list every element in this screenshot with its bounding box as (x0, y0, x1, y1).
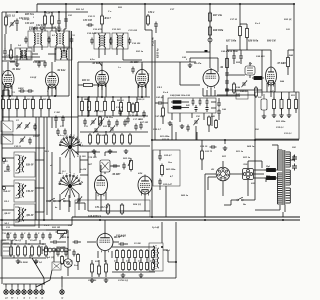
svg-text:C68 4,7: C68 4,7 (164, 154, 172, 157)
ground rr3 (287, 113, 292, 118)
junction bl1 (14, 243, 16, 245)
wire pin8 lead (61, 276, 63, 287)
capacitor C9 (28, 138, 32, 145)
resistor bankB1 (116, 261, 119, 271)
capacitor Cm55 (56, 250, 60, 257)
resistor Rt2 (17, 245, 20, 257)
wire Rr4 (295, 92, 297, 113)
connector pin4 (22, 287, 26, 294)
resistor R50d (215, 119, 218, 129)
svg-text:С 300: С 300 (54, 111, 61, 114)
svg-text:R25 51к: R25 51к (25, 13, 35, 16)
wire terminal drop (209, 42, 211, 68)
capacitor C34 (131, 67, 135, 74)
wire Rc2 (128, 97, 130, 116)
junction d11 (1, 219, 3, 221)
tube V7 6J8 (266, 66, 277, 87)
wire coil left leads (2, 158, 14, 210)
component padder fill (3, 123, 11, 130)
wire left bus y225 (0, 224, 72, 226)
wire w-contacts (46, 201, 70, 207)
svg-text:С27 220: С27 220 (52, 26, 61, 29)
resistor bankA5 (140, 249, 143, 259)
wire bus y97 c (78, 96, 150, 98)
resistor Rt6 (45, 245, 48, 257)
tube V6 6G7 (203, 68, 219, 88)
capacitor Cb7 (139, 123, 143, 130)
junction busA x240 (239, 3, 241, 5)
svg-text:С32 51: С32 51 (88, 15, 95, 18)
wire Rr3 (288, 92, 290, 113)
wire Rb3 (96, 97, 98, 116)
junction 225-140 (224, 139, 226, 141)
resistor Rx5 (99, 116, 102, 127)
wire bus y146 c (80, 145, 150, 147)
resistor Rb1 (81, 100, 84, 113)
wire bus y96 (2, 95, 69, 97)
wire det inner (183, 102, 216, 108)
svg-text:R35 1к: R35 1к (136, 50, 144, 53)
wire vertical x155 (154, 40, 156, 140)
inductor chain L (44, 248, 68, 252)
component padder box2 (1, 134, 13, 144)
svg-text:Л6: Л6 (219, 66, 224, 69)
wire bank top (112, 246, 155, 248)
resistor Rb4 (104, 100, 107, 113)
wire vertical x78 (77, 62, 79, 148)
wire IFT3 down (99, 49, 123, 60)
junction cj5 (105, 131, 107, 133)
connector pin3 (16, 287, 20, 294)
wire left edge vertical (1, 12, 3, 284)
wire C22 down (16, 25, 18, 31)
junction bl2 (28, 243, 30, 245)
svg-text:С25 470: С25 470 (29, 26, 38, 29)
transformer L3 box (15, 48, 32, 60)
wire y244 bl (2, 243, 46, 245)
connector pin1 (4, 287, 8, 294)
resistor R46d (171, 106, 183, 109)
svg-text:R39 1Д: R39 1Д (284, 18, 292, 21)
resistor Rr4 (295, 98, 298, 111)
fuse Пр1 (265, 168, 278, 171)
capacitor C31 (43, 61, 47, 68)
junction 255-140 (254, 139, 256, 141)
wire y258 bl (2, 257, 46, 259)
svg-text:C31: C31 (6, 226, 10, 229)
resistor Rc1 (120, 101, 123, 114)
resistor Rb5 (112, 100, 115, 113)
transformer IFT2 (50, 31, 70, 47)
svg-text:СВ-I: СВ-I (4, 201, 9, 203)
svg-text:КВ II 4а: КВ II 4а (157, 48, 160, 59)
component box bass lines (3, 242, 9, 244)
wire bus y140 (152, 139, 299, 141)
component box C51-K12 (75, 200, 150, 217)
ground gc2 (108, 149, 113, 154)
wire plug-trans (254, 170, 268, 182)
ground V11b (104, 278, 109, 283)
svg-text:С а 1: С а 1 (44, 225, 49, 227)
resistor bankA1 (116, 249, 119, 259)
svg-text:R17 2М: R17 2М (140, 121, 149, 124)
ground C43 (188, 63, 193, 68)
wire bus y132 c (80, 131, 148, 133)
wire V8 top (105, 152, 117, 174)
ground gc1 (92, 149, 97, 154)
capacitor C46d (186, 125, 190, 132)
svg-text:С31 4Д: С31 4Д (2, 232, 10, 235)
resistor pot volume (56, 231, 69, 234)
capacitor Cout (119, 242, 126, 246)
wire mid drops (179, 62, 181, 85)
wire det drops (172, 113, 212, 126)
resistor Rrow1-5 (32, 98, 35, 111)
svg-text:П2-1: П2-1 (43, 150, 49, 153)
trimmer Cb3 (98, 119, 104, 126)
svg-text:Пр2: Пр2 (265, 175, 271, 178)
wire vertical x152 (151, 30, 153, 217)
junction bank5 (140, 259, 141, 260)
coil box СВ (14, 180, 35, 202)
wire V4 top link (123, 60, 142, 70)
junction y96 a (9, 95, 11, 97)
resistor Rc3 (136, 101, 139, 114)
svg-text:R а 2: R а 2 (255, 23, 261, 25)
svg-text:С46Д R48 100в С42: С46Д R48 100в С42 (170, 94, 191, 97)
wire y148 l (2, 147, 45, 149)
wire R46r leads (288, 50, 294, 75)
wire bus join (71, 217, 73, 225)
ground c140 (223, 146, 228, 151)
capacitor C30 (37, 61, 41, 68)
capacitor C34 side (90, 38, 94, 45)
capacitor Cv (52, 240, 59, 244)
resistor Rt1 (10, 245, 13, 257)
junction cj3 (128, 96, 130, 98)
component padder box1 (1, 121, 13, 132)
wire top bus A (37, 3, 294, 5)
wire R26 l (44, 12, 46, 31)
svg-text:1: 1 (33, 17, 34, 19)
wire IFT34 link (110, 38, 112, 44)
tube V9 output pentode (95, 174, 108, 196)
svg-text:СВ-IV: СВ-IV (26, 190, 35, 193)
svg-text:R а 4: R а 4 (163, 91, 169, 94)
trimmer C50d (193, 119, 199, 126)
capacitor Ct5 (34, 233, 38, 240)
capacitor Cb6 (123, 120, 127, 127)
capacitor Ct1 (6, 233, 10, 240)
resistor R34 (101, 14, 104, 26)
svg-text:C33 100: C33 100 (83, 19, 93, 22)
wire x78 to wafer (72, 142, 79, 155)
wire R38 up (240, 24, 247, 29)
resistor Rrow1-4 (24, 98, 27, 111)
resistor R47 (209, 11, 212, 23)
resistor R37 (239, 25, 242, 38)
wire x240 drop (239, 4, 241, 25)
wire y95 rr (217, 94, 255, 96)
svg-text:R68 1к: R68 1к (247, 145, 255, 148)
wire R21 bottom (5, 12, 7, 34)
svg-text:С2 300: С2 300 (134, 243, 142, 245)
resistor bankA6 (146, 249, 149, 259)
junction cj1 (88, 96, 90, 98)
capacitor C25 side (24, 37, 28, 44)
svg-text:КВ-IV: КВ-IV (3, 171, 11, 173)
wire Rrow1-6 (40, 96, 42, 117)
svg-text:С48Д: С48Д (18, 87, 24, 90)
wire V2 pins (48, 62, 56, 96)
wire V2-IFT link (54, 48, 56, 62)
ground V11a (90, 278, 95, 283)
transformer L5 box (56, 48, 72, 60)
capacitor C15x (112, 164, 119, 168)
capacitor Cm2 (292, 164, 297, 171)
capacitor Ct4 (27, 233, 31, 240)
switch SA1 (237, 197, 243, 201)
capacitor C48d2 (217, 109, 221, 116)
transformer IFT4 (112, 33, 128, 49)
resistor Rt4 (31, 245, 34, 257)
wire trans bottom (255, 205, 280, 210)
wire x36 drop (35, 117, 37, 220)
svg-text:C51-К12 4Д: C51-К12 4Д (95, 206, 108, 209)
capacitor Cx3 (56, 129, 60, 136)
svg-text:б1: б1 (11, 297, 14, 300)
ground d2 (180, 124, 185, 129)
wire x240 bottom (240, 36, 247, 51)
svg-text:R22 1М: R22 1М (52, 226, 61, 229)
trimmer Cb2 (90, 119, 96, 126)
wire vertical x69 (68, 31, 70, 96)
svg-text:С55 4000: С55 4000 (56, 246, 66, 249)
capacitor C45d (157, 101, 164, 105)
terminal grid cap (208, 38, 212, 42)
coil box ДВ (14, 204, 35, 226)
wire socket wires2 (248, 161, 264, 196)
capacitor Cc3 (225, 87, 229, 94)
tube V3 6K4 IF (96, 69, 109, 87)
resistor R47d (162, 107, 165, 118)
coil box КВ (14, 152, 35, 177)
wire conn drops (6, 284, 42, 287)
wire bus A start drop (36, 4, 38, 12)
svg-text:R48 300к: R48 300к (213, 29, 224, 32)
wire c4x col (218, 98, 220, 120)
svg-text:Л7 6Ж8: Л7 6Ж8 (276, 62, 286, 65)
wire R28 l (10, 44, 12, 50)
junction d12 (293, 3, 295, 5)
ground gc3 (124, 149, 129, 154)
wire Rr1 (273, 92, 275, 113)
wire x52 drop (51, 152, 53, 220)
wire c links (88, 152, 150, 211)
capacitor Cant (6, 165, 10, 172)
svg-text:C10 51: C10 51 (14, 145, 21, 148)
wire C29 l (4, 34, 6, 60)
resistor R45d (171, 101, 183, 104)
trimmer pot S2 (76, 197, 82, 204)
capacitor C29 (3, 49, 7, 56)
capacitor C68f (158, 154, 162, 161)
wire speaker frame (0, 222, 176, 278)
svg-text:С4 8Д: С4 8Д (30, 76, 37, 79)
capacitor C36 (154, 22, 158, 29)
wire V4 pins (138, 64, 146, 97)
svg-text:R21 0,1: R21 0,1 (7, 15, 16, 18)
resistor Rd1 (89, 133, 92, 145)
junction busA x145 (144, 3, 146, 5)
wire sp wires (163, 250, 176, 262)
wire m-links (54, 250, 78, 270)
svg-text:R40 4,7: R40 4,7 (118, 235, 126, 238)
wire vertical x71.5 (71, 31, 73, 142)
trimmer C8 (19, 137, 25, 144)
component box output-amp (255, 92, 299, 139)
connector pin2 (10, 287, 14, 294)
svg-text:С9 410: С9 410 (30, 239, 38, 242)
resistor Rrow1-6 (40, 98, 43, 111)
connector pin7 (40, 287, 44, 294)
svg-text:R8 1,0: R8 1,0 (43, 98, 50, 101)
wire IFT bottoms (34, 47, 64, 52)
resistor Rk2 (98, 264, 101, 276)
svg-text:1: 1 (79, 178, 80, 180)
wire fb links (159, 150, 161, 190)
capacitor Cy1 (118, 109, 122, 116)
connector pin6 (34, 287, 38, 294)
wire bus y116 c (78, 115, 148, 117)
resistor Rt5 (38, 245, 41, 257)
transformer IFT3 (94, 33, 110, 49)
resistor bankA7 (152, 249, 155, 259)
resistor R66b (201, 149, 204, 161)
resistor Rr1 (273, 98, 276, 111)
tube V4 heterodyne (136, 68, 149, 88)
wire y90 r (225, 89, 262, 91)
svg-text:1: 1 (47, 91, 48, 93)
wire V1 pins (4, 62, 12, 96)
svg-text:C58 10: C58 10 (62, 236, 70, 239)
svg-text:ДВ-IV: ДВ-IV (25, 214, 35, 217)
wire top of V6 (210, 67, 212, 70)
svg-text:R31: R31 (118, 6, 122, 9)
resistor R38 (246, 27, 249, 40)
resistor R46r (287, 56, 290, 69)
wire SA1 wires (224, 140, 255, 205)
capacitor C47d2 (217, 101, 221, 108)
resistor Rm2 (77, 253, 80, 263)
junction d7 (99, 219, 101, 221)
wire det left (155, 102, 168, 104)
junction d1 (77, 96, 79, 98)
junction busA x210 (209, 3, 211, 5)
junction d10 (282, 219, 284, 221)
svg-text:Ф1: Ф1 (211, 168, 214, 171)
svg-text:С23 4Д: С23 4Д (22, 18, 30, 21)
wire V3 pins (98, 62, 106, 97)
wire C24 link (33, 27, 56, 29)
junction busA x102 (101, 3, 103, 5)
wire bl verts (12, 240, 40, 258)
junction bank2 (122, 259, 123, 260)
junction cj2 (112, 96, 114, 98)
switch contact w2 (59, 198, 65, 202)
svg-text:R55 1к: R55 1к (243, 156, 251, 159)
wire fbox to bus (165, 186, 167, 217)
svg-text:C21 0,1: C21 0,1 (284, 132, 292, 135)
junction busA x66 (65, 3, 67, 5)
svg-text:R13 51Д: R13 51Д (94, 110, 103, 113)
capacitor Cd3 (206, 99, 209, 106)
resistor Rrow1-1 (2, 98, 5, 111)
wire y58 seg (190, 58, 218, 72)
svg-text:R51 1к: R51 1к (236, 150, 244, 153)
svg-text:R66 1к: R66 1к (181, 194, 189, 197)
svg-text:6,5н: 6,5н (90, 58, 95, 61)
wire cc col (226, 68, 228, 96)
resistor R42 dark (252, 76, 264, 79)
wire Rr2 (281, 92, 283, 113)
svg-text:а б в г: а б в г (58, 134, 64, 137)
resistor Rr2 (280, 98, 283, 111)
junction cj4 (87, 115, 89, 117)
component crystal box (100, 160, 110, 172)
junction d2 (101, 96, 103, 98)
svg-text:C40 150: C40 150 (256, 55, 265, 58)
trimmer C21 (9, 21, 15, 28)
resistor R43 (255, 86, 258, 98)
wire y85 (78, 85, 102, 90)
resistor Rr3 (288, 98, 291, 111)
svg-text:С61 50: С61 50 (162, 138, 170, 141)
svg-text:АВ-I: АВ-I (3, 222, 9, 225)
trimmer C6 (24, 123, 30, 130)
junction bank6 (146, 259, 147, 260)
capacitor C27 (57, 19, 61, 26)
wire top mid links (145, 28, 156, 33)
junction d3 (141, 96, 143, 98)
svg-text:Л4 6И1: Л4 6И1 (129, 61, 139, 64)
resistor R41 (226, 57, 229, 70)
resistor Rk1 (91, 262, 94, 274)
svg-text:Др2 1Д: Др2 1Д (45, 256, 54, 259)
resistor Rd4 (113, 133, 116, 145)
svg-text:C62 70: C62 70 (205, 150, 213, 153)
component choke (245, 66, 255, 75)
junction d4 (1, 95, 3, 97)
capacitor C26 side (47, 37, 51, 44)
capacitor Ct3 (20, 233, 24, 240)
wire Rrow1-1 (2, 96, 4, 117)
resistor Rrow1-7 (48, 98, 51, 111)
svg-text:Л1 6К4: Л1 6К4 (11, 68, 21, 71)
wire diag fan1 (32, 258, 44, 284)
svg-text:С2700 1Д: С2700 1Д (118, 279, 128, 282)
wire x88 more (80, 160, 88, 175)
resistor Rm1 (61, 255, 64, 265)
capacitor C60b (210, 145, 217, 149)
resistor bankB6 (146, 261, 149, 271)
svg-text:С36 180: С36 180 (132, 42, 141, 45)
resistor Rx6 (132, 103, 135, 114)
capacitor Cy2 (126, 117, 130, 124)
junction sp2 (175, 261, 177, 263)
wire main bus upper (72, 216, 300, 218)
svg-text:С49 0,7: С49 0,7 (153, 128, 162, 131)
